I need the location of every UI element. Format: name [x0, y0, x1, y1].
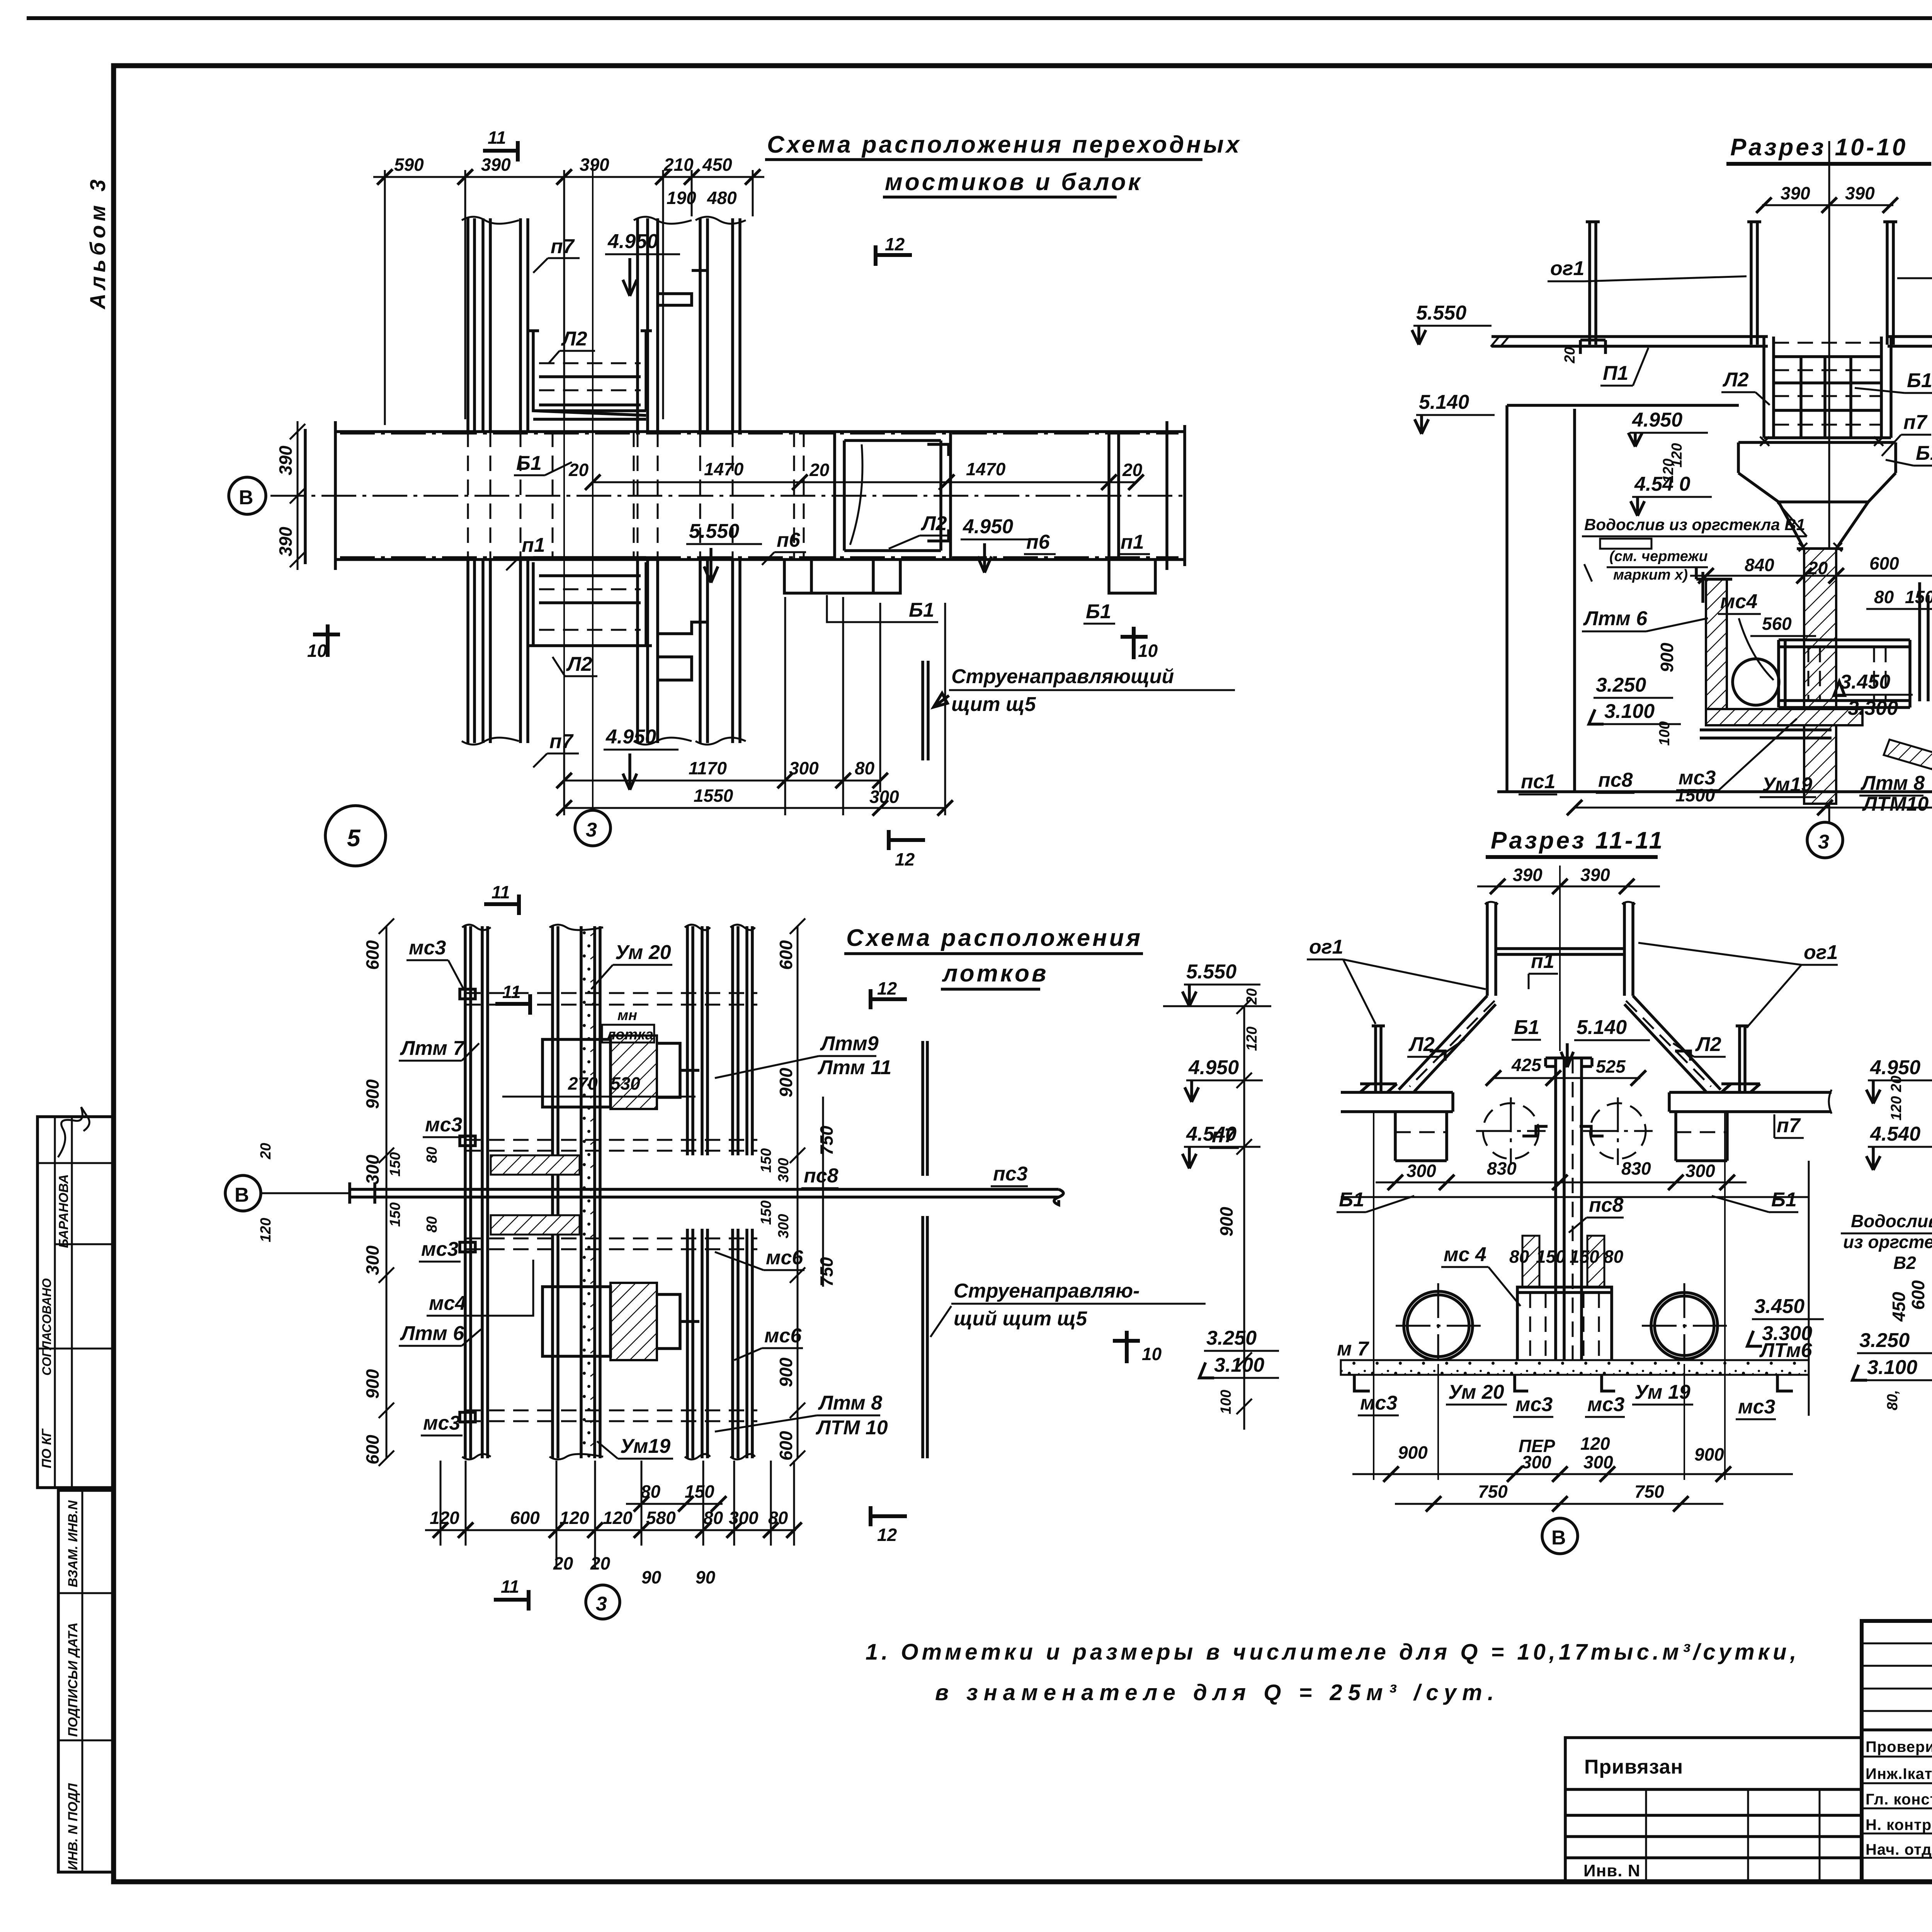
svg-text:Б1: Б1 [1339, 1189, 1364, 1211]
right opening frame P6/L2 [835, 432, 951, 560]
svg-text:390: 390 [276, 446, 296, 475]
svg-text:3: 3 [596, 1593, 607, 1615]
svg-text:Б1: Б1 [516, 452, 542, 474]
svg-text:120: 120 [1580, 1434, 1610, 1454]
channel band top dashed inner [340, 433, 1179, 435]
svg-text:300: 300 [776, 1158, 792, 1182]
svg-text:5.550: 5.550 [1186, 961, 1236, 983]
cage inner verticals [1801, 357, 1851, 438]
svg-text:11: 11 [492, 882, 510, 902]
extension verticals view D [1374, 1113, 1725, 1480]
bottom dim extension lines [564, 597, 945, 815]
svg-text:390: 390 [1781, 183, 1810, 203]
svg-text:Разрез 11-11: Разрез 11-11 [1491, 827, 1665, 854]
svg-text:п6: п6 [1026, 531, 1050, 553]
svg-text:90: 90 [641, 1567, 662, 1587]
signature squiggle [58, 1107, 89, 1157]
bottom dim line 2 [564, 807, 945, 809]
svg-text:1470: 1470 [704, 459, 744, 479]
right opening hooks [927, 444, 949, 541]
dashed band verticals [553, 432, 804, 560]
svg-text:в знаменателе для Q = 25м³: в знаменателе для Q = 25м³ /сут. [935, 1680, 1500, 1705]
wall group 2 with concrete strip [581, 926, 595, 1458]
svg-text:750: 750 [1634, 1481, 1664, 1502]
band left end verticals [305, 421, 335, 570]
svg-text:5.550: 5.550 [1416, 302, 1466, 324]
bottom dim ticks 1 [556, 773, 888, 788]
svg-text:120: 120 [560, 1508, 589, 1528]
svg-text:150: 150 [758, 1148, 774, 1173]
svg-text:п6: п6 [777, 529, 801, 551]
svg-text:210: 210 [663, 155, 694, 175]
svg-text:Ум19: Ум19 [620, 1435, 670, 1458]
svg-text:В: В [235, 1184, 249, 1206]
railing post 2 [1747, 222, 1761, 345]
svg-text:150: 150 [387, 1152, 403, 1177]
dashed tie lines bottom [465, 1410, 757, 1421]
svg-text:В2: В2 [1893, 1253, 1916, 1273]
section mark 12 top view C [871, 989, 907, 1009]
svg-text:120: 120 [603, 1508, 633, 1528]
svg-text:ог1: ог1 [1804, 941, 1838, 964]
svg-text:Б1: Б1 [1086, 600, 1111, 623]
wall group 1 top/bottom breaks [462, 925, 491, 1459]
svg-text:1. Отметки и размеры в ч: 1. Отметки и размеры в числителе для Q =… [866, 1639, 1800, 1665]
wall group 4 verticals upper [733, 926, 752, 1155]
svg-text:120 20: 120 20 [1888, 1076, 1905, 1121]
inventory strip row line 1 [58, 1592, 113, 1594]
guide panel symbol [923, 661, 928, 760]
svg-text:Ум 20: Ум 20 [1448, 1381, 1504, 1403]
svg-text:900: 900 [776, 1357, 796, 1387]
weir V1 white box [1600, 539, 1651, 549]
left dim chain vertical view D [1236, 998, 1252, 1430]
svg-text:900: 900 [1657, 643, 1677, 672]
view C title underline 2 [941, 988, 1040, 991]
svg-text:4.54 0: 4.54 0 [1634, 473, 1690, 495]
axis circle 3 view B [1807, 822, 1843, 858]
left railing post view D [1372, 1026, 1385, 1092]
tie plates small [460, 989, 475, 1422]
svg-text:10: 10 [1138, 641, 1158, 661]
svg-text:пс8: пс8 [1589, 1194, 1624, 1216]
view D title underline [1486, 855, 1658, 859]
svg-text:20: 20 [568, 460, 589, 480]
view C title underline 1 [844, 952, 1143, 955]
top dimension ticks [377, 169, 760, 185]
svg-text:3.250: 3.250 [1206, 1327, 1257, 1349]
svg-text:пс8: пс8 [804, 1165, 838, 1187]
svg-text:900: 900 [362, 1369, 383, 1399]
left wall verticals [1507, 405, 1575, 792]
svg-text:п7: п7 [1777, 1114, 1801, 1137]
upper walls top break marks [462, 217, 746, 224]
svg-text:5: 5 [347, 825, 362, 852]
svg-text:480: 480 [707, 188, 737, 208]
lower walls bottom break marks [462, 738, 746, 745]
svg-text:20: 20 [1244, 988, 1260, 1005]
svg-text:750: 750 [816, 1257, 837, 1287]
svg-text:600: 600 [1869, 553, 1899, 573]
svg-text:10: 10 [307, 641, 327, 661]
svg-text:80: 80 [1509, 1247, 1529, 1267]
svg-text:Л2: Л2 [920, 512, 947, 535]
svg-text:300: 300 [1583, 1452, 1613, 1472]
svg-text:120: 120 [258, 1218, 274, 1242]
svg-text:ИНВ. N ПОДЛ: ИНВ. N ПОДЛ [66, 1783, 80, 1870]
lower gangway ladder L2 frame [528, 562, 652, 646]
svg-text:20: 20 [590, 1553, 611, 1573]
svg-text:830: 830 [1621, 1158, 1651, 1179]
svg-text:600: 600 [510, 1508, 540, 1528]
svg-text:4.950: 4.950 [605, 726, 656, 748]
lower wall verticals second pair [520, 560, 528, 743]
svg-text:Лтм 8: Лтм 8 [818, 1392, 882, 1414]
svg-text:Лтм 6: Лтм 6 [1583, 607, 1648, 630]
svg-text:Альбом 3: Альбом 3 [85, 175, 110, 310]
svg-text:лотков: лотков [942, 960, 1049, 987]
circles centre lines [1396, 1283, 1727, 1368]
deck left view D [1341, 1084, 1453, 1112]
svg-text:600: 600 [1908, 1280, 1928, 1310]
svg-text:Л2: Л2 [566, 653, 592, 675]
svg-text:Лтм 11: Лтм 11 [817, 1056, 891, 1079]
svg-text:ог1: ог1 [1309, 936, 1343, 958]
binding block outer [1565, 1738, 1862, 1881]
band dimension line [593, 481, 1136, 483]
svg-text:80: 80 [1874, 587, 1894, 607]
axis circle B [229, 477, 266, 514]
svg-text:мс3: мс3 [425, 1114, 462, 1136]
funnel below pedestal [1779, 502, 1868, 549]
svg-text:3: 3 [1818, 831, 1829, 853]
svg-text:Лтм 7: Лтм 7 [400, 1037, 465, 1060]
weir left leader [1584, 502, 1807, 582]
bottom dim chain line [425, 1529, 796, 1531]
svg-text:4.950: 4.950 [963, 515, 1013, 538]
funnel diagonals right [1624, 996, 1721, 1092]
svg-text:900: 900 [1216, 1207, 1236, 1236]
svg-text:м 7: м 7 [1337, 1338, 1369, 1360]
deck bottom line [1507, 346, 1932, 405]
svg-text:120: 120 [1244, 1027, 1260, 1051]
svg-text:ЛТм6: ЛТм6 [1759, 1339, 1813, 1362]
funnel diagonal dash right [1626, 1001, 1711, 1087]
agreement table inner column 1 [54, 1117, 56, 1488]
svg-text:750: 750 [1478, 1481, 1508, 1502]
svg-text:(см. чертежи: (см. чертежи [1609, 548, 1708, 565]
svg-text:п7: п7 [549, 730, 574, 753]
bottom dim line 1 [564, 780, 880, 782]
svg-text:300: 300 [362, 1245, 383, 1275]
upper wall verticals far right [700, 218, 740, 432]
svg-text:590: 590 [394, 155, 424, 175]
channel band bottom dashed inner [340, 556, 1179, 558]
svg-text:1170: 1170 [689, 758, 727, 778]
channel band left end [350, 1182, 375, 1204]
pedestal x marks [1760, 437, 1883, 446]
pedestal block B1 [1738, 442, 1896, 502]
svg-text:10: 10 [1142, 1344, 1162, 1364]
upper wall verticals left pair [468, 218, 490, 432]
svg-text:Проверил: Проверил [1866, 1738, 1932, 1755]
svg-text:450: 450 [1889, 1292, 1909, 1322]
left pedestal view D [1395, 1112, 1447, 1161]
svg-text:150: 150 [758, 1201, 774, 1225]
section mark 10 left [313, 624, 340, 657]
svg-text:80: 80 [641, 1481, 661, 1502]
page top trim line [27, 16, 1932, 20]
svg-text:Лтм9: Лтм9 [820, 1032, 879, 1055]
binding block columns [1646, 1789, 1820, 1881]
lower wall verticals right pair [638, 560, 658, 743]
svg-text:Привязан: Привязан [1584, 1756, 1683, 1778]
funnel step details [1430, 1051, 1690, 1061]
svg-text:Ум 20: Ум 20 [615, 941, 671, 964]
inventory strip row line 2 [58, 1740, 113, 1742]
circle centre lines [1476, 1097, 1653, 1165]
svg-text:Водослив: Водослив [1851, 1211, 1932, 1231]
svg-text:Водослив из оргстекла В1: Водослив из оргстекла В1 [1584, 515, 1805, 534]
svg-text:Инж.Iкат.: Инж.Iкат. [1866, 1765, 1932, 1782]
svg-text:мс6: мс6 [764, 1325, 802, 1347]
svg-text:80: 80 [424, 1147, 440, 1163]
svg-text:270: 270 [568, 1073, 598, 1094]
svg-text:пс1: пс1 [1521, 770, 1556, 793]
svg-text:из оргстекла: из оргстекла [1843, 1232, 1932, 1252]
svg-text:600: 600 [362, 1435, 383, 1464]
svg-text:390: 390 [1513, 865, 1543, 885]
svg-text:щий щит щ5: щий щит щ5 [954, 1308, 1087, 1330]
svg-text:Н. контр.: Н. контр. [1866, 1816, 1932, 1833]
svg-text:Б1: Б1 [909, 599, 934, 621]
dashed tie lines lower-mid [465, 1238, 757, 1249]
right trough walls [1920, 582, 1928, 701]
upper gangway ladder L2 frame [528, 331, 652, 411]
svg-text:мс3: мс3 [1515, 1393, 1553, 1416]
hatched cross beam lower [491, 1215, 580, 1235]
lower ladder dashed rungs [539, 589, 641, 630]
svg-text:Инв. N: Инв. N [1583, 1861, 1640, 1880]
view B title underline [1726, 162, 1931, 166]
svg-text:3: 3 [586, 819, 597, 841]
svg-text:1550: 1550 [694, 786, 733, 806]
inventory margin strip [58, 1490, 113, 1872]
upper ladder dashed rungs [539, 363, 641, 390]
svg-text:150: 150 [1905, 587, 1932, 607]
right dim chain line [790, 918, 823, 1466]
svg-text:150: 150 [1536, 1247, 1566, 1267]
dashed circles view D [1483, 1103, 1539, 1159]
svg-text:840: 840 [1745, 555, 1774, 575]
bottom dim line2 view D [1395, 1503, 1723, 1505]
upper hatched lotok box [611, 1036, 657, 1109]
deck hatch left end [1491, 337, 1509, 347]
funnel deck p1 [1496, 949, 1624, 954]
svg-text:Б1: Б1 [1916, 442, 1932, 464]
svg-text:300: 300 [1685, 1161, 1715, 1181]
svg-text:Струенаправляю-: Струенаправляю- [954, 1280, 1139, 1302]
lower wall verticals far right [700, 560, 740, 743]
svg-text:Разрез 10-10: Разрез 10-10 [1730, 134, 1908, 161]
svg-text:300: 300 [869, 787, 899, 807]
central channel band double line [350, 1189, 1059, 1197]
central box top plate [1517, 1291, 1612, 1294]
svg-text:900: 900 [362, 1079, 383, 1109]
svg-text:Лтм 6: Лтм 6 [400, 1322, 464, 1345]
svg-text:Ум 19: Ум 19 [1634, 1381, 1690, 1403]
svg-text:Гл. конст.: Гл. конст. [1866, 1791, 1932, 1808]
svg-text:5.140: 5.140 [1419, 391, 1469, 413]
svg-text:п7: п7 [551, 235, 575, 258]
svg-text:Л2: Л2 [561, 328, 587, 350]
right band inner verticals [1109, 432, 1119, 560]
centre axis line view D [1559, 866, 1561, 1051]
deck top lines [1492, 337, 1932, 346]
upper wall verticals right pair [638, 218, 658, 432]
left band dim line [290, 421, 305, 570]
svg-text:600: 600 [776, 1431, 796, 1461]
wall dashed continuations through band [468, 432, 733, 560]
svg-text:830: 830 [1487, 1158, 1517, 1179]
svg-text:Б1: Б1 [1771, 1189, 1797, 1211]
svg-text:3.300: 3.300 [1848, 697, 1898, 719]
hatched cross beam upper [491, 1155, 580, 1175]
svg-text:12: 12 [885, 234, 905, 254]
svg-text:Нач. отд: Нач. отд [1866, 1841, 1932, 1858]
svg-text:БАРАНОВА: БАРАНОВА [56, 1174, 71, 1248]
axis 3 vertical line [592, 166, 594, 811]
svg-text:580: 580 [646, 1508, 676, 1528]
channel band centre axis line [270, 495, 1185, 497]
section mark 11 bottom [484, 895, 519, 915]
title block outer box [1862, 1621, 1932, 1882]
svg-text:Схема расположения: Схема расположения [846, 925, 1143, 951]
lower wall step detail [658, 622, 707, 680]
svg-text:Л2: Л2 [1408, 1033, 1435, 1056]
view A title underline 2 [883, 196, 1117, 199]
svg-text:20: 20 [1562, 347, 1578, 364]
section mark 11 lower2 [495, 994, 530, 1015]
lower lotok side box [657, 1294, 699, 1349]
svg-text:150: 150 [1570, 1247, 1599, 1267]
svg-text:20: 20 [809, 460, 830, 480]
section mark 12 top [876, 245, 912, 266]
right pedestal dashed [1676, 1131, 1727, 1133]
right railing post view D [1736, 1026, 1749, 1092]
svg-text:80: 80 [855, 758, 875, 778]
svg-text:190: 190 [667, 188, 696, 208]
svg-text:80: 80 [703, 1508, 723, 1528]
svg-text:600: 600 [362, 940, 383, 970]
cage rungs [1764, 357, 1891, 438]
svg-text:5.140: 5.140 [1577, 1016, 1627, 1039]
lower hatched lotok box [611, 1283, 657, 1360]
left dim chain line [379, 918, 394, 1466]
svg-text:20: 20 [258, 1143, 274, 1160]
svg-text:90: 90 [696, 1567, 716, 1587]
view A title underline 1 [765, 158, 1202, 161]
svg-text:мс4: мс4 [429, 1292, 466, 1315]
centre axis line view B [1828, 141, 1830, 823]
svg-text:20: 20 [553, 1553, 573, 1573]
trough inner dashed verticals [1808, 647, 1886, 701]
svg-text:мс4: мс4 [1720, 590, 1757, 613]
tank top hook [1696, 568, 1732, 603]
svg-text:390: 390 [276, 527, 296, 556]
svg-text:В: В [239, 486, 253, 509]
svg-text:900: 900 [776, 1068, 796, 1097]
svg-text:5.550: 5.550 [689, 520, 739, 543]
channel band break right [1054, 1189, 1063, 1205]
svg-text:лотка: лотка [606, 1027, 653, 1043]
right lower hatch strip [1884, 740, 1932, 781]
svg-text:4.950: 4.950 [1188, 1056, 1239, 1079]
railing post 3 [1883, 222, 1897, 345]
svg-text:ЛТМ 10: ЛТМ 10 [815, 1417, 888, 1439]
svg-text:390: 390 [481, 155, 511, 175]
right opening curve mark [850, 444, 862, 545]
cage dashed rungs [1774, 343, 1881, 425]
svg-text:390: 390 [1580, 865, 1610, 885]
svg-text:425: 425 [1511, 1055, 1542, 1075]
svg-text:600: 600 [776, 940, 796, 970]
svg-text:мс 4: мс 4 [1444, 1243, 1486, 1266]
svg-text:П1: П1 [1603, 362, 1628, 384]
svg-text:300: 300 [362, 1155, 383, 1184]
guide panel arrow [934, 693, 949, 707]
inventory strip inner column [82, 1490, 83, 1872]
axis B leader [261, 1192, 350, 1194]
section mark 10 view C [1113, 1331, 1140, 1363]
svg-text:СОГЛАСОВАНО: СОГЛАСОВАНО [40, 1278, 54, 1376]
svg-text:80: 80 [1604, 1247, 1624, 1267]
centre funnel wall right [1624, 902, 1633, 996]
bottom dim line1 view D [1352, 1473, 1793, 1475]
column top flanges [1546, 1058, 1592, 1066]
svg-text:Б1: Б1 [1907, 369, 1932, 392]
svg-text:мс3: мс3 [423, 1412, 460, 1434]
axis circle 3 view C [586, 1585, 620, 1619]
right pedestal view D [1676, 1112, 1727, 1161]
extension line axis 1460 [563, 419, 565, 746]
svg-text:щит щ5: щит щ5 [951, 693, 1036, 716]
dashed tie lines upper-mid [465, 1140, 757, 1151]
svg-text:мс3: мс3 [1738, 1396, 1775, 1418]
tank floor hatched [1706, 709, 1862, 725]
dashed tie lines top [465, 993, 757, 1005]
svg-text:пс3: пс3 [993, 1163, 1028, 1185]
long line below pedestals [1341, 1196, 1809, 1198]
central trough box [1779, 640, 1910, 707]
funnel diagonals left [1399, 996, 1496, 1092]
svg-text:3.250: 3.250 [1859, 1329, 1910, 1352]
section mark 12 bottom [889, 830, 925, 850]
bottom extension lines [440, 1461, 794, 1569]
guide panel symbol view C lower [923, 1216, 927, 1458]
lower wall verticals left pair [468, 560, 490, 743]
svg-text:ог1: ог1 [1550, 257, 1584, 280]
svg-text:пс8: пс8 [1598, 769, 1633, 791]
svg-text:300: 300 [776, 1214, 792, 1238]
axis circle В view D [1542, 1518, 1578, 1554]
svg-text:525: 525 [1596, 1056, 1626, 1077]
signature grid row lines (upper empty rows) [1862, 1643, 1932, 1645]
svg-text:мс3: мс3 [421, 1238, 458, 1260]
top dimension line [373, 176, 764, 178]
railing post 1 [1580, 222, 1605, 354]
upper wall step detail [658, 270, 707, 305]
